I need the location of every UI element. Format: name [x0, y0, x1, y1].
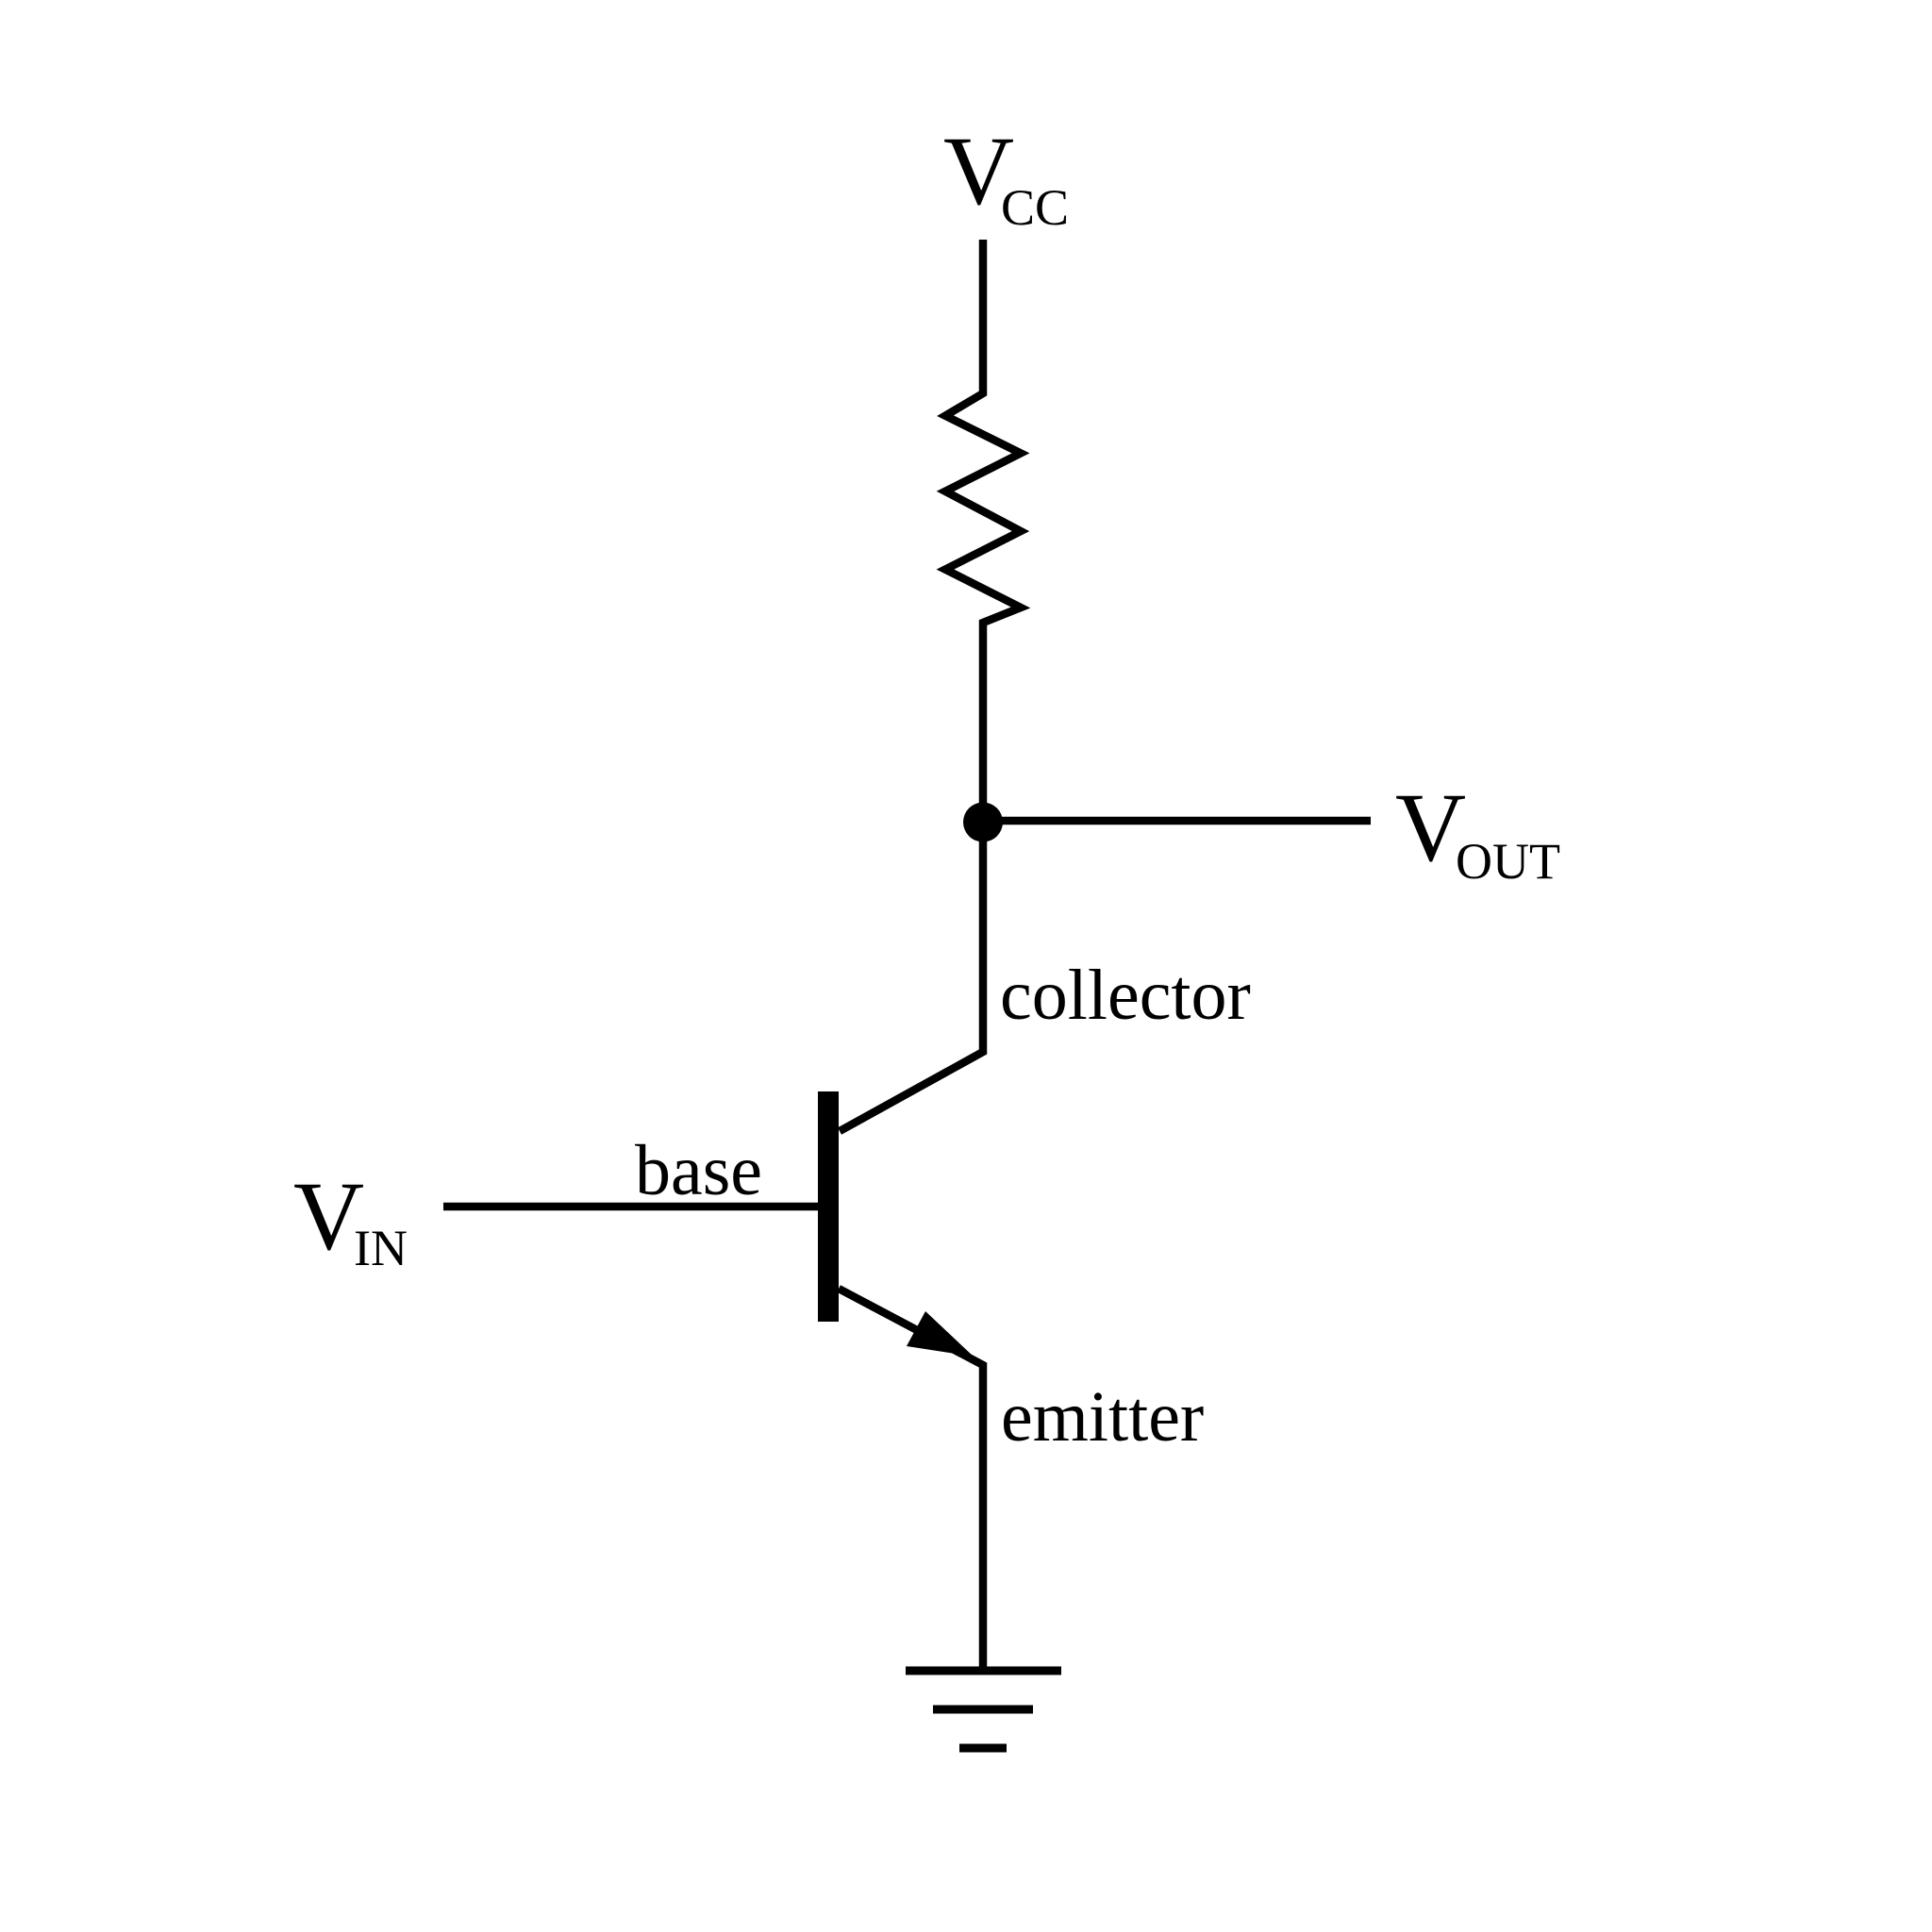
svg-text:collector: collector: [1000, 956, 1251, 1035]
svg-text:emitter: emitter: [1001, 1377, 1204, 1457]
svg-text:CC: CC: [1001, 179, 1069, 236]
svg-text:base: base: [635, 1131, 762, 1210]
svg-text:IN: IN: [354, 1220, 408, 1276]
svg-text:OUT: OUT: [1456, 833, 1560, 890]
